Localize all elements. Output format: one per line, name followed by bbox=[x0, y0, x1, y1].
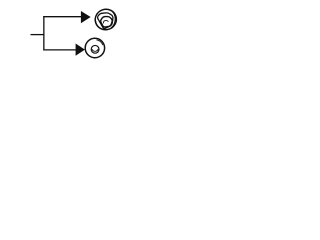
wire: top branch bbox=[43, 16, 81, 18]
wire: left input stub bbox=[31, 34, 45, 36]
nut: top face chamfer ring bbox=[98, 13, 113, 29]
washer: hole bbox=[91, 45, 99, 53]
wire: bottom branch bbox=[43, 49, 77, 51]
washer: top-right inner edge arc bbox=[96, 40, 102, 45]
nut: threaded hole bbox=[101, 17, 113, 27]
nut: thread arc inside hole bbox=[104, 21, 109, 24]
arrow: bottom branch head bbox=[76, 44, 85, 56]
washer: hole inner shading arc bbox=[92, 49, 98, 51]
nut: bottom-left facet arc bbox=[95, 19, 100, 29]
arrow: top branch head bbox=[81, 11, 91, 23]
washer: outer ring bbox=[85, 38, 104, 57]
wire: vertical bus bbox=[43, 16, 45, 51]
nut: right side facet arc bbox=[111, 10, 116, 28]
nut: hex flange nut (3/4 view), outer silhouette bbox=[93, 7, 119, 33]
